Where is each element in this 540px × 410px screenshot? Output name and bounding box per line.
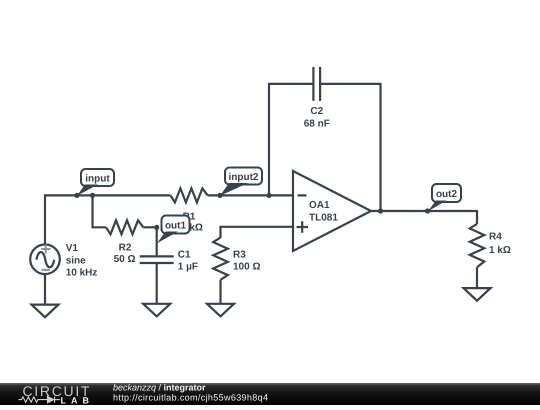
svg-text:50 Ω: 50 Ω [114,254,136,265]
wire feedback left branch up from input2 rail to C2 [269,84,313,195]
ground below V1 [32,305,59,318]
svg-text:100 Ω: 100 Ω [233,261,260,272]
resistor R2 [106,220,143,234]
svg-text:TL081: TL081 [309,213,338,224]
ground below R4 [464,288,491,301]
wire top rail from V1 to R1 [45,194,170,196]
svg-text:out1: out1 [165,220,187,231]
wire branch from input node down to R2 [93,195,107,227]
svg-text:C2: C2 [310,106,323,117]
wire C1 bottom lead [156,263,158,304]
capacitor C1 [140,255,174,257]
svg-text:out2: out2 [436,189,458,200]
wire R1 to op-amp minus input [208,194,293,196]
node flag out1 [157,216,190,244]
junction node dot op-amp output [378,208,383,213]
wire R2 to node out1 [143,226,156,228]
svg-text:LAB: LAB [61,396,95,405]
junction node dot at input flag [74,193,79,198]
svg-text:1 kΩ: 1 kΩ [489,245,511,256]
svg-text:http://circuitlab.com/cjh55w63: http://circuitlab.com/cjh55w639h8q4 [113,392,268,402]
node flag input2 [220,168,262,196]
svg-text:R3: R3 [233,250,246,261]
junction node dot top rail to R2 branch [90,193,95,198]
wire op-amp output to R4 [371,211,477,224]
svg-text:R4: R4 [489,231,502,242]
wire R3 bottom lead [219,280,221,304]
resistor R4 [470,224,485,267]
footer bar [0,383,540,405]
wire out1 node to C1 [156,226,158,256]
node flag input [77,169,114,196]
wire feedback right branch from C2 down to output [320,84,380,211]
wire V1 bottom lead [44,274,46,305]
junction node dot out1 [154,225,159,230]
node flag out2 [428,184,461,211]
svg-text:C1: C1 [178,250,191,261]
ground below R3 [207,304,234,317]
capacitor C2 [312,67,314,101]
svg-text:V1: V1 [66,243,79,254]
op-amp OA1 [293,171,371,251]
resistor R1 [170,188,207,202]
svg-text:input: input [85,173,110,184]
svg-text:input2: input2 [229,172,259,183]
voltage source V1 [30,244,60,274]
svg-text:sine: sine [66,255,86,266]
wire R3 top to op-amp plus input [221,227,294,238]
V1 polarity minus mark [42,269,50,271]
junction node dot at input2 flag [217,193,222,198]
svg-text:beckanzzq / integrator: beckanzzq / integrator [113,383,206,393]
CircuitLab logo resistor-diode squiggle [19,397,61,403]
wire R4 bottom lead [476,267,478,288]
V1 polarity plus mark [41,245,50,270]
junction node dot at out2 flag [425,208,430,213]
svg-text:10 kHz: 10 kHz [66,267,98,278]
junction node dot feedback branch [266,193,271,198]
wire V1 top lead [44,194,46,244]
svg-text:OA1: OA1 [309,200,330,211]
ground below C1 [143,304,170,317]
svg-text:1 µF: 1 µF [178,262,198,273]
resistor R3 [213,238,228,280]
svg-text:R2: R2 [119,242,132,253]
svg-text:68 nF: 68 nF [304,118,330,129]
